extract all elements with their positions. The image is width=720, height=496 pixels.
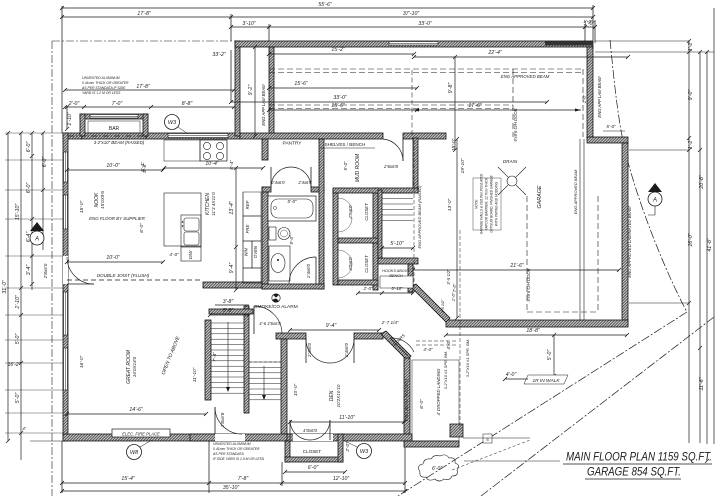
dim 22'-4 garage	[414, 56, 628, 58]
svg-text:MUD ROOM: MUD ROOM	[355, 153, 361, 182]
svg-text:ENG APP LAM BEAM: ENG APP LAM BEAM	[597, 76, 602, 118]
wall under bar	[82, 133, 146, 139]
window great room 2	[64, 348, 68, 390]
roof overhang line vertical	[51, 41, 53, 496]
dims 2'-0 7'-0 8'-8	[65, 106, 234, 108]
garage beam dashed top	[269, 68, 583, 70]
dim 3'-8 stairs	[215, 304, 249, 306]
right dim col4	[713, 8, 715, 444]
ext line right y461	[464, 460, 560, 462]
dim 33'-0 garage	[231, 101, 547, 103]
svg-text:5’-6”: 5’-6”	[142, 163, 148, 173]
svg-text:5’-0”: 5’-0”	[15, 393, 21, 404]
wall stairs left	[205, 320, 211, 400]
dim 9'-4 den	[290, 329, 379, 331]
door opening den bottom	[293, 434, 333, 441]
wall stairs top	[209, 309, 253, 314]
beam dashed x412 upper	[411, 70, 413, 137]
wall hall bottom	[190, 434, 293, 441]
svg-text:33’-0”: 33’-0”	[418, 21, 432, 27]
dishwasher	[181, 247, 201, 261]
svg-text:ENG APPROVED BEAM (RAISED): ENG APPROVED BEAM (RAISED)	[417, 185, 422, 249]
leader W3 lower	[345, 441, 357, 447]
dim 15'-6 garage 1	[269, 87, 417, 89]
door opening left wall	[63, 256, 68, 284]
svg-text:1’-0”: 1’-0”	[583, 19, 593, 25]
svg-text:15’-6”: 15’-6”	[294, 81, 308, 87]
box 5 label	[483, 434, 492, 443]
ext line left y219	[5, 218, 63, 220]
svg-text:18’-8”: 18’-8”	[526, 328, 540, 334]
svg-text:4’6 1/2”: 4’6 1/2”	[440, 299, 445, 313]
svg-text:WITH TAPING AND MUDDING: WITH TAPING AND MUDDING	[495, 181, 499, 226]
garage beam dashed mid	[269, 104, 513, 106]
svg-text:3-2”X10 #1 SPR. BM.: 3-2”X10 #1 SPR. BM.	[465, 339, 470, 377]
svg-text:3’-8”: 3’-8”	[223, 299, 234, 305]
svg-text:2’8x6’0: 2’8x6’0	[43, 263, 48, 279]
wall house right	[622, 143, 628, 326]
svg-text:A: A	[652, 198, 657, 204]
walk diagonal line	[481, 317, 714, 496]
svg-text:2’-0”: 2’-0”	[363, 286, 373, 291]
svg-text:0.41mm THICK OR GREATER: 0.41mm THICK OR GREATER	[213, 447, 260, 451]
wall pantry left	[262, 139, 268, 160]
wall bar bump right	[143, 114, 148, 136]
svg-text:31’-0”: 31’-0”	[2, 280, 8, 294]
leader W8	[140, 440, 152, 447]
dim 15'-6 garage 2	[269, 109, 417, 111]
dim 1'-10	[66, 107, 68, 129]
ext line left y133	[5, 132, 63, 134]
pantry door arc right	[291, 167, 311, 187]
svg-text:17’-8”: 17’-8”	[137, 11, 151, 17]
svg-text:CLOSET: CLOSET	[364, 203, 369, 221]
svg-text:4’-0”: 4’-0”	[169, 252, 179, 257]
svg-text:9’x9’6 O/H DOOR: 9’x9’6 O/H DOOR	[526, 268, 531, 301]
door arc hall	[215, 407, 242, 434]
svg-text:1’-2”: 1’-2”	[688, 139, 694, 150]
beam dash-dot under bar	[68, 135, 146, 137]
svg-text:16’-0”: 16’-0”	[79, 355, 85, 368]
svg-text:GARAGE: GARAGE	[537, 185, 543, 208]
svg-text:PANTRY: PANTRY	[282, 141, 302, 147]
svg-text:ELEC. FIRE PLACE: ELEC. FIRE PLACE	[122, 432, 160, 437]
svg-text:2’4x6’0: 2’4x6’0	[297, 180, 312, 185]
window garage top wall	[389, 42, 438, 46]
closet bottom wall	[285, 457, 343, 462]
svg-text:2’-10”: 2’-10”	[15, 295, 21, 310]
svg-text:5’-4”: 5’-4”	[229, 160, 235, 170]
svg-text:DOUBLE JOIST (FLUSH): DOUBLE JOIST (FLUSH)	[97, 273, 150, 278]
note unvented aluminum upper-left	[81, 76, 129, 95]
svg-text:8’-0”: 8’-0”	[419, 399, 425, 409]
svg-text:4’-0”: 4’-0”	[446, 340, 451, 350]
porch line	[463, 437, 530, 439]
ext line left y190	[5, 189, 63, 191]
svg-text:11’-10”: 11’-10”	[192, 367, 198, 382]
svg-text:7’-0”: 7’-0”	[452, 283, 457, 292]
wall mud right x413	[413, 138, 418, 190]
ext line top left	[61, 6, 63, 133]
left dim col3	[31, 133, 33, 290]
svg-text:35’-10”: 35’-10”	[223, 485, 239, 491]
dim 4'-0 walk	[505, 378, 528, 380]
svg-text:10’-4”: 10’-4”	[205, 161, 219, 167]
svg-text:5’-0”: 5’-0”	[606, 124, 616, 129]
door arc nook side door	[67, 257, 94, 284]
svg-text:2’4x6’0: 2’4x6’0	[270, 180, 285, 185]
ext bottom x282	[281, 462, 283, 486]
svg-text:7’-8”: 7’-8”	[238, 476, 249, 482]
right dim col1	[688, 41, 690, 443]
svg-text:7’-4”: 7’-4”	[212, 352, 218, 362]
island double sink	[184, 218, 199, 231]
wall hall spine right	[333, 188, 418, 193]
svg-text:11’3 4X11’0: 11’3 4X11’0	[211, 192, 216, 216]
svg-text:16’-0”: 16’-0”	[688, 233, 694, 247]
svg-text:4’0x6’0: 4’0x6’0	[303, 428, 317, 433]
svg-text:ENG APPROVED BEAM: ENG APPROVED BEAM	[501, 74, 550, 79]
ext line left y160	[5, 159, 63, 161]
smoke co alarm symbol	[272, 294, 280, 302]
svg-text:15’-0”: 15’-0”	[79, 200, 85, 213]
dim 31'-0 left	[7, 133, 9, 441]
front door arc	[390, 338, 414, 352]
bath door arc	[289, 257, 316, 284]
wall bath right	[319, 139, 324, 289]
ext line right y150	[629, 149, 689, 151]
svg-text:17’-8”: 17’-8”	[136, 84, 150, 90]
ext line left bottom	[30, 440, 63, 442]
svg-text:9’-0”: 9’-0”	[688, 90, 694, 101]
stair arrow second	[263, 366, 265, 398]
wall closets left	[333, 190, 338, 285]
svg-text:W3: W3	[360, 449, 369, 455]
wall den diagonal	[381, 331, 411, 360]
pantry door arc left	[271, 167, 291, 187]
bench	[380, 276, 413, 288]
ext line right y41	[595, 40, 689, 42]
cabinet left edge	[242, 192, 244, 283]
ext line right y303	[629, 302, 689, 304]
window great room 1	[64, 292, 68, 335]
svg-text:VAPOUR BARRIER, 12.7mm THICK: VAPOUR BARRIER, 12.7mm THICK	[485, 177, 489, 230]
wall closets right	[373, 188, 378, 290]
wall house top-left	[63, 133, 82, 139]
svg-text:2’6x6’8: 2’6x6’8	[383, 164, 398, 169]
beam line dashed entry	[459, 230, 461, 430]
garage beam double line	[579, 139, 581, 320]
svg-text:14’-6”: 14’-6”	[129, 407, 143, 413]
ext line x595	[594, 20, 596, 43]
svg-text:GYPSUM BOARD, FINISHED GARAGE: GYPSUM BOARD, FINISHED GARAGE	[490, 175, 494, 233]
svg-text:10’-0”: 10’-0”	[106, 163, 120, 169]
dim 17'-8 upper-left	[65, 89, 234, 91]
wall house left	[63, 133, 68, 441]
bar counter	[88, 121, 140, 133]
svg-text:2’8x6’8: 2’8x6’8	[220, 412, 225, 428]
wall mud stairs left	[378, 190, 382, 258]
svg-text:A: A	[34, 237, 39, 243]
wall bench right x408	[408, 264, 413, 292]
dim 14'-6 great	[67, 413, 206, 415]
dim 3'-10 / 33'-0 / 1'-0 top	[231, 26, 595, 28]
svg-text:9’-2”: 9’-2”	[248, 85, 254, 96]
stove	[200, 140, 227, 161]
ext line x593	[592, 5, 594, 41]
wall bar bump top	[80, 114, 148, 119]
svg-text:33’-0”: 33’-0”	[333, 95, 347, 101]
svg-text:6’-0”: 6’-0”	[26, 183, 32, 194]
cabinet WM	[243, 241, 252, 268]
dim 10'-0 nook	[67, 169, 163, 171]
svg-text:0.41mm THICK OR GREATER: 0.41mm THICK OR GREATER	[82, 81, 129, 85]
bottom dims 15'-4 7'-8 12'-10	[62, 482, 405, 484]
svg-text:1’-0”: 1’-0”	[451, 292, 456, 301]
dim 10'-4 kitchen	[164, 167, 263, 169]
svg-text:13’-4”: 13’-4”	[229, 201, 235, 215]
dim line right step	[603, 130, 625, 132]
ext line left y315	[5, 314, 63, 316]
double joist dashed	[67, 279, 203, 281]
svg-text:19’-10”: 19’-10”	[460, 158, 466, 173]
door arc den left	[306, 339, 330, 363]
wall den left	[281, 339, 287, 434]
svg-text:1’-2”: 1’-2”	[688, 41, 694, 52]
right dim col2	[699, 52, 701, 443]
svg-text:8’-8”: 8’-8”	[182, 101, 193, 107]
svg-text:W3: W3	[168, 120, 177, 126]
svg-text:IF SIDE YARD IS 1.5 M OR LESS: IF SIDE YARD IS 1.5 M OR LESS	[213, 457, 265, 461]
svg-text:CLOSET: CLOSET	[364, 255, 369, 273]
wall spine kitchen	[203, 282, 263, 288]
note unvented bottom	[212, 442, 265, 461]
1R in walk box	[524, 375, 568, 384]
wall garage right upper	[587, 47, 593, 139]
cabinet OVEN	[252, 241, 261, 268]
svg-text:17’-6”: 17’-6”	[468, 103, 482, 109]
svg-text:ENG APPROVED BEAM: ENG APPROVED BEAM	[573, 169, 578, 214]
stair treads mud	[382, 192, 413, 194]
svg-text:15’-4”: 15’-4”	[121, 476, 135, 482]
svg-text:YARD IS 1.2 M OR LESS: YARD IS 1.2 M OR LESS	[82, 91, 121, 95]
svg-text:15’-6”: 15’-6”	[331, 103, 345, 109]
svg-text:9’-4”: 9’-4”	[326, 323, 337, 329]
svg-text:BAR: BAR	[109, 126, 120, 132]
dashed open above	[249, 361, 281, 363]
dim line entry garage	[456, 139, 458, 318]
svg-text:NOTE:: NOTE:	[475, 199, 479, 209]
kitchen counter top	[164, 140, 200, 161]
dashed entry beam 2	[416, 344, 458, 346]
svg-text:13’-0”: 13’-0”	[447, 198, 453, 211]
wall house top mud-right	[403, 133, 446, 139]
garage door header dark	[545, 42, 593, 46]
cabinet REF	[243, 192, 261, 216]
toilet	[269, 227, 276, 240]
closet door arc left	[290, 420, 310, 440]
shelf line mud	[320, 147, 375, 149]
left dim col4	[42, 133, 44, 250]
svg-text:55’-6”: 55’-6”	[318, 2, 332, 8]
ext line left y340	[5, 339, 63, 341]
dashed entry beam	[416, 340, 458, 342]
ext bottom x209	[208, 441, 210, 493]
svg-text:9’x9’6 O/H DOOR: 9’x9’6 O/H DOOR	[513, 108, 518, 141]
svg-text:9’-4”: 9’-4”	[229, 263, 235, 274]
window bar	[90, 115, 138, 119]
svg-text:ENG APPROVED LAMINATED BEAM: ENG APPROVED LAMINATED BEAM	[627, 206, 632, 278]
svg-text:W8: W8	[130, 450, 139, 456]
wall entry diagonal	[411, 284, 450, 322]
stair arrow down	[227, 322, 229, 390]
ext line right y52	[595, 51, 714, 53]
svg-text:W/M: W/M	[244, 247, 249, 256]
svg-text:ENG APP LAM BEAM: ENG APP LAM BEAM	[261, 84, 266, 126]
svg-text:2’-7 1/4”: 2’-7 1/4”	[381, 320, 399, 325]
ext line left y288	[5, 287, 63, 289]
svg-text:21’-6”: 21’-6”	[509, 263, 524, 269]
section marker A right	[648, 183, 662, 192]
cabinet FRE	[243, 216, 261, 241]
dim 17'-8 / 37'-10 top	[62, 16, 593, 18]
svg-text:6’-0”: 6’-0”	[308, 465, 319, 471]
dim 11'-10 den	[290, 421, 404, 423]
svg-text:10’-0”: 10’-0”	[106, 255, 120, 261]
svg-text:4’0x6’0: 4’0x6’0	[348, 205, 353, 219]
svg-text:12’-10”: 12’-10”	[333, 476, 349, 482]
wall bench top	[378, 258, 418, 264]
revision cloud 6'-0	[419, 455, 459, 481]
window nook 2	[64, 195, 68, 229]
svg-text:CLOSET: CLOSET	[303, 449, 322, 454]
dim 15'-2 garage	[269, 53, 414, 55]
svg-text:5’-10”: 5’-10”	[390, 241, 404, 247]
leader W3 upper	[178, 127, 188, 134]
dim 6'-0 closet	[285, 471, 345, 473]
svg-text:1R IN WALK: 1R IN WALK	[532, 378, 560, 384]
garage lower door dashed	[526, 196, 528, 312]
svg-text:HOOKS ABOVE: HOOKS ABOVE	[382, 269, 410, 273]
dim 17'-6 garage	[413, 109, 581, 111]
svg-text:UNVENTED ALUMINUM: UNVENTED ALUMINUM	[82, 76, 120, 80]
svg-text:4’-0”: 4’-0”	[423, 347, 433, 352]
svg-text:41’-8”: 41’-8”	[707, 238, 713, 252]
dim 5'-10 mud	[382, 247, 413, 249]
wall bath top	[262, 187, 271, 192]
svg-text:5’-0”: 5’-0”	[287, 199, 297, 204]
marker W3 upper	[165, 115, 180, 130]
svg-text:FRE: FRE	[245, 225, 250, 234]
window nook 1	[64, 152, 68, 182]
svg-text:6’-0”: 6’-0”	[42, 157, 48, 168]
svg-text:2’-0”: 2’-0”	[345, 442, 350, 453]
svg-text:10’2X10’10: 10’2X10’10	[336, 384, 341, 407]
dim mud bench	[358, 292, 413, 294]
svg-text:8’-0”: 8’-0”	[139, 223, 145, 233]
svg-text:11’-6”: 11’-6”	[699, 377, 705, 390]
ext bottom x62	[61, 441, 63, 493]
dim 55'-6 top	[62, 7, 593, 9]
dim 5'-8 stairs	[210, 314, 249, 316]
dim 9'-8 garage	[454, 57, 456, 150]
kitchen island	[164, 193, 201, 246]
ext line x269	[268, 24, 270, 47]
svg-text:2’4x6’0: 2’4x6’0	[306, 263, 311, 278]
closet right wall	[338, 434, 343, 462]
bottom dim 35'-10	[62, 490, 405, 492]
svg-text:22’-4”: 22’-4”	[487, 50, 502, 56]
svg-text:4’-6 2’6x6’8: 4’-6 2’6x6’8	[259, 321, 281, 326]
stair treads main	[211, 322, 244, 324]
cloud leader	[452, 440, 530, 470]
svg-text:10’-0”: 10’-0”	[293, 383, 299, 396]
svg-text:2’4x6’0: 2’4x6’0	[307, 342, 312, 357]
hall door arc	[254, 306, 282, 334]
wall garage step	[587, 137, 628, 143]
wall closets bottom	[338, 280, 378, 285]
svg-text:2’-0”: 2’-0”	[68, 101, 80, 107]
svg-text:37’-10”: 37’-10”	[403, 11, 419, 17]
mud door arc	[383, 139, 403, 161]
wall stairs mid	[244, 306, 249, 413]
section marker A left	[30, 222, 44, 231]
svg-text:ENG FLOOR BY SUPPLIER: ENG FLOOR BY SUPPLIER	[89, 216, 146, 221]
svg-text:5’-0”: 5’-0”	[547, 350, 553, 361]
svg-text:DRAIN: DRAIN	[503, 159, 518, 164]
svg-text:AS PER STANDATA: AS PER STANDATA	[212, 452, 244, 456]
svg-text:4’-0”: 4’-0”	[506, 372, 517, 378]
wall inner vertical x269	[269, 47, 274, 136]
svg-text:3’-5 1/2”: 3’-5 1/2”	[446, 269, 451, 285]
closet door arc right	[310, 420, 330, 440]
svg-text:6’-0”: 6’-0”	[432, 466, 442, 472]
closet door arcs lower	[338, 250, 352, 264]
svg-text:9’-8”: 9’-8”	[448, 83, 454, 94]
svg-text:16’0X14’0: 16’0X14’0	[132, 356, 137, 377]
dim kitchen right col	[235, 168, 237, 290]
svg-text:5’-10”: 5’-10”	[391, 286, 403, 291]
svg-text:7’-0”: 7’-0”	[112, 101, 123, 107]
wall den right	[404, 358, 410, 441]
svg-text:GARAGE 854 SQ.FT.: GARAGE 854 SQ.FT.	[587, 467, 681, 479]
dim 5'-0 walk	[553, 335, 555, 376]
dim 9'-2 inner	[254, 47, 256, 136]
svg-text:9’-0”: 9’-0”	[289, 235, 294, 245]
wall closets mid	[338, 238, 378, 243]
svg-text:DEN: DEN	[329, 390, 335, 401]
ext line left y256	[5, 255, 63, 257]
wall great room bottom	[63, 434, 215, 441]
svg-text:5’-0”: 5’-0”	[15, 334, 21, 345]
closet door arcs upper	[338, 198, 352, 212]
svg-text:6’-0”: 6’-0”	[26, 142, 32, 153]
ext line x585	[584, 24, 586, 41]
svg-text:20’-8”: 20’-8”	[699, 175, 705, 190]
beam dashed x414	[413, 140, 415, 288]
marker W3 lower	[357, 444, 372, 459]
property line curved right	[610, 40, 687, 312]
wall house top mid	[146, 133, 240, 139]
svg-text:15’0X9’6: 15’0X9’6	[100, 191, 105, 209]
ext line left y433	[5, 432, 63, 434]
stair treads second run	[249, 361, 281, 363]
wall bath left	[262, 187, 268, 289]
svg-text:OVEN: OVEN	[253, 245, 258, 258]
fireplace	[112, 429, 170, 437]
svg-text:REF: REF	[245, 200, 250, 209]
svg-text:BENCH: BENCH	[389, 274, 403, 278]
